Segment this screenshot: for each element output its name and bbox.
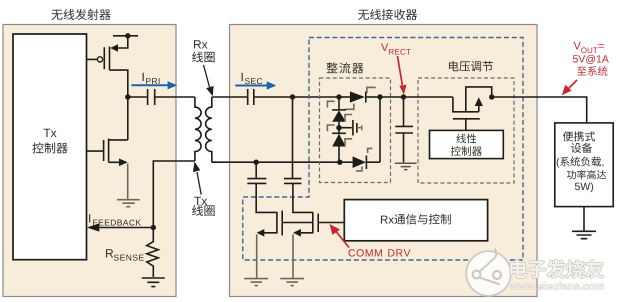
ground comm right <box>280 279 304 286</box>
label R_SENSE <box>106 249 144 260</box>
wire Q4 gate to comm block <box>318 222 344 224</box>
wire Q3 gate <box>282 222 313 224</box>
watermark text www.elecfans.com <box>510 282 604 290</box>
arrow I_PRI current <box>131 81 177 89</box>
diode D2 upper left <box>332 97 346 128</box>
block portable device load <box>555 123 613 207</box>
transistor Q3 comm FET left <box>256 183 282 236</box>
label I_PRI <box>143 73 160 84</box>
ground load <box>572 231 596 238</box>
transistor Q1 PMOS high-side <box>87 36 128 97</box>
label V_OUT <box>573 42 609 76</box>
transformer Tx coil winding <box>195 97 201 161</box>
fet hooks D1 <box>345 87 376 109</box>
wire Rx coil to C2 <box>212 96 248 98</box>
diode D1 top <box>339 91 380 102</box>
wire SW to C1 <box>128 96 148 98</box>
arrow COMM DRV pointer <box>330 224 350 248</box>
transistor Q5 pass PMOS <box>453 87 492 130</box>
ground tx power <box>117 200 140 207</box>
watermark text dianzifashaoyou <box>510 260 603 278</box>
capacitor C1 series primary <box>148 89 155 105</box>
transformer Rx coil winding <box>206 97 212 162</box>
wire Q3 source to ground <box>256 234 258 278</box>
node bridge mid <box>336 125 341 130</box>
capacitor C3 bridge <box>339 120 362 136</box>
fet hooks D3 <box>327 125 352 146</box>
label Tx coil <box>192 197 214 216</box>
arrow pointer to Tx coil <box>193 162 201 195</box>
transistor Q2 NMOS low-side <box>87 97 128 166</box>
wire load to ground <box>583 207 585 231</box>
node comm cap1 tap <box>254 160 259 165</box>
label wireless transmitter <box>51 9 110 20</box>
node half-bridge SW <box>125 94 130 99</box>
voltage regulation dashed box <box>418 78 514 183</box>
wire bridge to regulator <box>380 96 453 98</box>
wire AC1 drop to comm cap <box>292 97 294 178</box>
wire Q2 source to ground <box>127 164 129 199</box>
wire Q4 source to ground <box>292 234 294 278</box>
wire V_OUT to load <box>492 97 587 123</box>
label COMM DRV <box>349 249 411 256</box>
node bridge AC1 <box>336 94 341 99</box>
label I_SEC <box>242 73 263 84</box>
wire AC2 bottom <box>212 161 340 163</box>
label rectifier <box>326 62 363 73</box>
node regulator output <box>489 94 494 99</box>
label voltage regulation <box>449 61 493 72</box>
capacitor C4 V_RECT bulk <box>395 97 413 162</box>
fet hooks D2 <box>327 101 352 121</box>
VDD rail stub <box>113 35 138 37</box>
label wireless receiver <box>358 9 417 20</box>
wire AC1 top <box>254 96 339 98</box>
arrow I_SEC current <box>235 81 276 89</box>
rectifier dashed box <box>320 78 391 183</box>
ground R_SENSE <box>142 278 165 287</box>
transistor Q4 comm FET right <box>293 183 318 236</box>
watermark elecfans logo circle <box>466 249 511 296</box>
arrow I_FEEDBACK into controller <box>87 223 154 231</box>
block linear controller U3 <box>430 130 504 158</box>
node V_RECT <box>401 94 406 99</box>
label I_FEEDBACK <box>89 214 141 225</box>
resistor R_SENSE <box>147 228 159 278</box>
label V_RECT <box>381 43 411 54</box>
arrow pointer to Rx coil <box>204 65 214 96</box>
arrow V_RECT pointer <box>398 56 407 95</box>
block Rx comm control U2 <box>344 200 487 241</box>
ground comm left <box>244 279 268 286</box>
receiver panel <box>230 25 538 297</box>
node AC1 branch <box>290 94 295 99</box>
node bridge output <box>377 94 382 99</box>
arrow V_OUT pointer <box>562 80 577 95</box>
node I_FEEDBACK junction <box>151 225 156 230</box>
diode D4 bottom <box>340 156 380 170</box>
wire Tx coil return / sense net <box>153 161 195 228</box>
capacitor C6 comm <box>284 179 302 184</box>
wire C1 to Tx coil <box>155 96 195 98</box>
node VDD junction <box>125 33 130 38</box>
capacitor C2 series secondary <box>248 89 254 105</box>
diode D3 lower left <box>332 128 346 163</box>
capacitor C5 comm <box>247 162 266 183</box>
ground C4 <box>395 163 417 169</box>
node bridge AC2 <box>337 160 342 165</box>
block Tx controller U1 <box>13 34 87 260</box>
receiver IC blue dashed outline <box>243 38 523 261</box>
label Rx coil <box>192 40 214 62</box>
transmitter panel <box>3 25 176 297</box>
fet hooks D4 <box>356 148 372 171</box>
wire bridge output riser <box>379 97 381 162</box>
